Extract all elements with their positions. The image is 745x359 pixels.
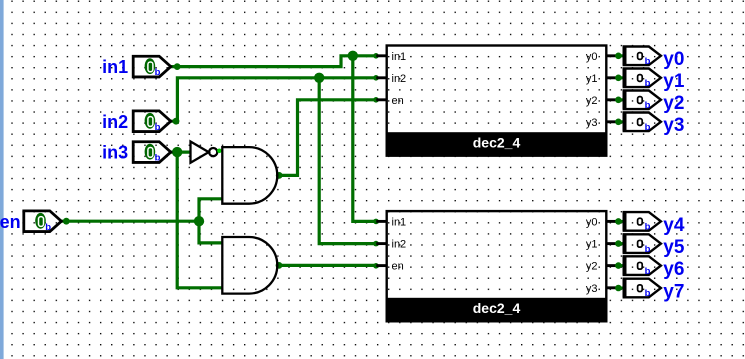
output pin y3 <box>615 113 661 134</box>
node dec1.en dot <box>373 97 379 103</box>
wire J2 to dec2.in2 <box>319 78 377 244</box>
pin stub dec2.en <box>376 264 387 267</box>
input pin in1 <box>133 56 171 78</box>
svg-text:b: b <box>155 153 161 164</box>
svg-text:y2: y2 <box>586 261 598 273</box>
svg-text:b: b <box>645 78 651 89</box>
svg-text:b: b <box>645 222 651 233</box>
pin stub dec2.y3 <box>606 286 617 289</box>
svg-text:in3: in3 <box>102 143 128 163</box>
junction J2 (in2 branch) <box>314 73 324 83</box>
junction J3 (in3 branch) <box>172 147 182 157</box>
pin stub dec1.y0 <box>606 54 617 57</box>
svg-text:y6: y6 <box>663 259 684 280</box>
svg-text:b: b <box>645 266 651 277</box>
node dec2.in1 dot <box>373 219 379 225</box>
wire in3 to inverter U3 input <box>171 151 191 154</box>
output pin y0 <box>615 47 661 68</box>
AND gate U5 (bottom) <box>222 237 277 294</box>
wire J1 to dec2.in1 <box>353 56 377 222</box>
svg-text:b: b <box>645 56 651 67</box>
svg-text:y3: y3 <box>586 117 598 129</box>
input pin in3 <box>133 142 171 164</box>
pin stub dec2.in2 <box>376 242 387 245</box>
wire in1 to dec1.in1 <box>171 56 377 67</box>
svg-text:dec2_4: dec2_4 <box>473 134 521 150</box>
svg-text:y2: y2 <box>663 93 684 114</box>
svg-text:b: b <box>645 122 651 133</box>
svg-text:y1: y1 <box>663 71 685 92</box>
svg-text:in1: in1 <box>392 51 407 63</box>
svg-text:in2: in2 <box>102 112 128 132</box>
svg-text:in2: in2 <box>392 239 407 251</box>
pin stub dec1.in1 <box>376 54 387 57</box>
svg-text:b: b <box>645 244 651 255</box>
wire J4 up to AND1 input B <box>199 199 222 221</box>
svg-text:b: b <box>645 288 651 299</box>
svg-text:y5: y5 <box>663 237 685 258</box>
svg-text:b: b <box>155 122 161 133</box>
output pin y4 <box>615 212 661 233</box>
svg-text:y4: y4 <box>663 215 685 236</box>
node dec2.in2 dot <box>373 241 379 247</box>
pin stub dec2.in1 <box>376 220 387 223</box>
node dec1.in1 dot <box>373 53 379 59</box>
pin stub dec1.y3 <box>606 120 617 123</box>
pin stub dec2.y1 <box>606 242 617 245</box>
svg-text:y3: y3 <box>586 283 598 295</box>
node AND2 output dot <box>276 262 283 269</box>
wire in2 to dec1.in2 <box>171 78 377 121</box>
node AND1 output dot <box>276 172 283 179</box>
AND gate U4 (top) <box>222 147 277 204</box>
svg-text:en: en <box>392 95 404 107</box>
svg-text:en: en <box>0 212 21 232</box>
output pin y1 <box>615 69 661 90</box>
wire en pin to junction J4 <box>61 220 199 223</box>
wire J3 down to AND2 input B <box>177 152 222 288</box>
node en pin dot <box>63 218 70 225</box>
output pin y5 <box>615 234 661 255</box>
subcircuit U2 dec2_4 (bottom) <box>376 211 616 321</box>
svg-text:in1: in1 <box>392 217 407 229</box>
output pin y2 <box>615 91 661 112</box>
svg-text:en: en <box>392 261 404 273</box>
pin stub dec1.y2 <box>606 98 617 101</box>
svg-text:dec2_4: dec2_4 <box>473 300 521 316</box>
inverter U3 <box>191 142 222 163</box>
svg-text:y0: y0 <box>586 217 598 229</box>
node dec1.in2 dot <box>373 75 379 81</box>
pin stub dec1.en <box>376 98 387 101</box>
node in1 pin dot <box>174 63 181 70</box>
svg-text:in2: in2 <box>392 73 407 85</box>
wire AND1 output to dec1.en <box>277 100 377 176</box>
subcircuit U1 dec2_4 (top) <box>376 46 616 157</box>
svg-text:y0: y0 <box>586 51 598 63</box>
wire AND2 output to dec2.en <box>277 264 377 267</box>
svg-text:y7: y7 <box>663 281 684 302</box>
svg-text:y3: y3 <box>663 115 684 136</box>
svg-text:y1: y1 <box>586 73 598 85</box>
input pin in2 <box>133 111 171 133</box>
svg-text:y1: y1 <box>586 239 598 251</box>
sheet left border strip <box>0 0 4 359</box>
pin stub dec1.y1 <box>606 76 617 79</box>
junction J1 (in1 branch) <box>348 51 358 61</box>
output pin y6 <box>615 256 661 277</box>
node dec2.en dot <box>373 263 379 269</box>
output pin y7 <box>615 279 661 300</box>
svg-text:b: b <box>645 100 651 111</box>
junction J4 (en branch) <box>194 216 204 226</box>
svg-text:in1: in1 <box>102 57 128 77</box>
input pin en <box>24 211 62 233</box>
svg-text:y0: y0 <box>663 49 684 70</box>
svg-text:b: b <box>155 67 161 78</box>
svg-text:b: b <box>45 222 51 233</box>
svg-text:y2: y2 <box>586 95 598 107</box>
node in2 pin dot <box>173 118 180 125</box>
pin stub dec1.in2 <box>376 76 387 79</box>
pin stub dec2.y2 <box>606 264 617 267</box>
pin stub dec2.y0 <box>606 220 617 223</box>
wire J4 down to AND2 input A <box>199 221 222 243</box>
